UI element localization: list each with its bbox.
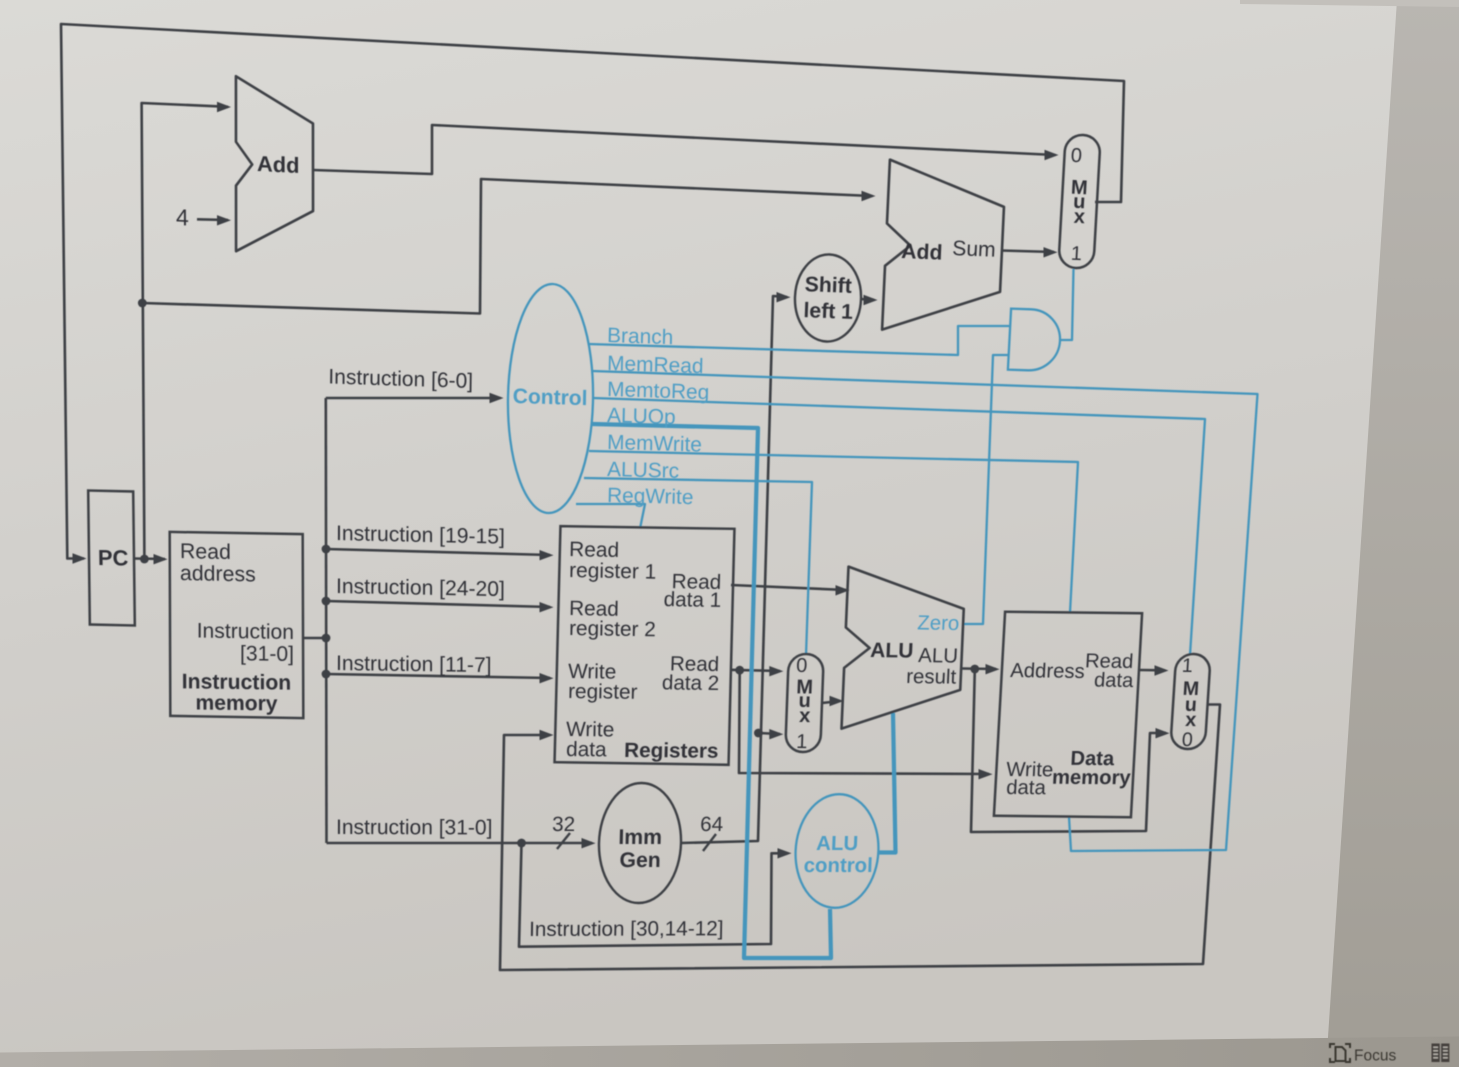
- oval Shift left 1: [793, 253, 862, 342]
- arrowhead into ALU control: [778, 848, 792, 858]
- svg-text:data 1: data 1: [663, 588, 721, 612]
- arrowhead into write data of registers: [540, 730, 554, 740]
- label instruction 31-0 port: [197, 619, 294, 644]
- wire MemtoReg signal: [593, 398, 1205, 655]
- label shift left 1: [804, 273, 852, 298]
- arrowhead into ImmGen: [582, 838, 596, 848]
- svg-text:4: 4: [176, 204, 189, 231]
- label instruction 24-20: [336, 575, 505, 601]
- arrowhead into shift left 1: [777, 292, 791, 302]
- arrowhead into mux3 input0: [1156, 728, 1170, 738]
- wire MemRead signal: [592, 371, 1258, 851]
- svg-text:ALUSrc: ALUSrc: [607, 458, 679, 483]
- label read register 2: [569, 597, 619, 621]
- oval ALU control: [793, 794, 880, 908]
- svg-text:Focus: Focus: [1354, 1048, 1396, 1065]
- arrowhead into ALU input1: [836, 585, 850, 595]
- wire ALUSrc signal: [584, 478, 812, 655]
- arrowhead into Add input1: [217, 102, 231, 112]
- label MemtoReg: [607, 378, 710, 404]
- label Imm Gen: [618, 826, 662, 849]
- label write data reg: [566, 718, 615, 741]
- arrowhead into Control: [490, 393, 504, 403]
- label MemRead: [607, 352, 704, 378]
- label Branch: [607, 324, 674, 349]
- svg-text:32: 32: [552, 813, 575, 836]
- node imm to mux junction: [754, 729, 763, 738]
- node PC branch junction: [138, 299, 147, 308]
- svg-text:Gen: Gen: [619, 849, 661, 872]
- adder Add (PC+4): [236, 76, 313, 255]
- svg-text:MemWrite: MemWrite: [607, 431, 702, 457]
- register PC: [88, 491, 135, 626]
- mux3 memtoreg pill: [1170, 654, 1211, 749]
- arrowhead into mux2 input0: [769, 666, 783, 676]
- svg-text:Zero: Zero: [917, 612, 960, 635]
- wire Branch signal: [588, 326, 1009, 355]
- wire AND gate out to mux4 select: [1061, 269, 1074, 340]
- svg-text:RegWrite: RegWrite: [607, 484, 694, 509]
- arrowhead into Add input2: [217, 215, 231, 225]
- svg-text:register 2: register 2: [569, 617, 656, 641]
- arrowhead into read address: [154, 554, 168, 564]
- node tap 19-15: [322, 545, 331, 554]
- svg-text:Instruction [6-0]: Instruction [6-0]: [328, 365, 473, 393]
- svg-text:Address: Address: [1010, 660, 1086, 683]
- screen top edge right: [1240, 0, 1459, 7]
- wire imm to mux2 in1: [758, 733, 780, 734]
- svg-text:memory: memory: [1051, 767, 1132, 789]
- arrowhead into mux4 input1: [1044, 247, 1058, 257]
- svg-text:left 1: left 1: [803, 299, 854, 324]
- oval Control: [506, 283, 595, 515]
- label instruction 30 14-12: [529, 917, 724, 941]
- label 32: [552, 813, 575, 836]
- svg-text:x: x: [799, 705, 811, 727]
- wire instruction 30,14-12: [519, 843, 788, 947]
- wire instruction 6-0 to Control: [326, 397, 500, 400]
- svg-text:Instruction [24-20]: Instruction [24-20]: [336, 575, 505, 601]
- label ALU: [870, 639, 914, 663]
- wire ALU result to data memory: [963, 667, 997, 670]
- label Registers: [624, 739, 719, 763]
- label 64: [700, 813, 724, 836]
- svg-text:1: 1: [1070, 243, 1082, 265]
- wire PC to AddSum: [142, 179, 872, 314]
- wire ALUOp signal: [592, 424, 831, 958]
- wire mux3 out writeback loop: [500, 705, 1220, 971]
- label instruction 31-0: [336, 816, 493, 839]
- status bar: [0, 1037, 1459, 1067]
- label read data 2: [670, 652, 720, 676]
- svg-text:MemRead: MemRead: [607, 352, 704, 378]
- label read data mem: [1084, 650, 1134, 673]
- arrowhead into mux4 input0: [1045, 150, 1059, 160]
- wire Add out to mux4 in0: [313, 125, 1055, 174]
- wire instruction 24-20: [326, 601, 550, 607]
- svg-text:MemtoReg: MemtoReg: [607, 378, 710, 404]
- block data memory: [994, 612, 1142, 817]
- arrowhead into write data of data memory: [979, 769, 993, 779]
- wire ALU control out to ALU: [878, 713, 896, 853]
- svg-text:1: 1: [1181, 655, 1193, 677]
- mux4 pcsrc pill: [1058, 134, 1100, 269]
- wire RegWrite signal: [576, 504, 645, 529]
- label Instruction 6-0: [328, 365, 473, 393]
- wire read data 2 down to data memory: [739, 670, 989, 774]
- label RegWrite: [607, 484, 694, 509]
- svg-text:address: address: [180, 561, 256, 586]
- label 4: [176, 204, 189, 231]
- svg-text:data: data: [566, 738, 607, 761]
- label read data 1: [671, 570, 721, 594]
- node read data 2 junction: [735, 666, 744, 675]
- svg-text:memory: memory: [195, 692, 277, 716]
- node ALU result junction: [970, 665, 979, 674]
- adder Add Sum (branch): [882, 160, 1006, 335]
- label Add Sum: [901, 240, 943, 265]
- wire read data to mux3: [1140, 669, 1165, 672]
- label Add: [257, 151, 300, 178]
- label read address: [180, 539, 231, 564]
- focus icon: [1330, 1044, 1350, 1062]
- wire instruction 11-7: [326, 674, 550, 678]
- svg-text:Instruction [31-0]: Instruction [31-0]: [336, 816, 493, 839]
- label Address: [1010, 660, 1086, 683]
- oval Imm Gen: [598, 783, 683, 903]
- mux2 alusrc pill: [785, 654, 824, 752]
- svg-text:[31-0]: [31-0]: [240, 642, 294, 666]
- label instruction memory: [182, 670, 292, 694]
- svg-text:ALU: ALU: [816, 833, 859, 855]
- arrowhead into address: [986, 664, 1000, 674]
- label data memory: [1070, 748, 1116, 770]
- wire read data 2: [730, 670, 780, 671]
- svg-text:PC: PC: [98, 545, 129, 571]
- svg-text:Instruction [11-7]: Instruction [11-7]: [336, 652, 492, 677]
- svg-text:Add: Add: [901, 240, 943, 265]
- node imm branch junction: [517, 839, 526, 848]
- label instruction 19-15: [336, 522, 505, 549]
- svg-text:Instruction: Instruction: [197, 619, 294, 644]
- alu main ALU: [842, 567, 966, 731]
- svg-text:ALU: ALU: [918, 645, 959, 668]
- node PC-out junction: [140, 555, 149, 564]
- arrowhead into ALU input2: [830, 696, 844, 706]
- wire instruction 19-15: [326, 549, 550, 555]
- arrowhead into mux3 input1: [1155, 665, 1169, 675]
- wire shift left 1 out to AddSum: [861, 298, 875, 301]
- svg-text:x: x: [1073, 206, 1085, 228]
- wire ImmGen out up to shift left: [681, 296, 787, 843]
- wire read data 1 to ALU: [731, 585, 846, 590]
- label ALUSrc: [607, 458, 679, 483]
- wire mux2 out to ALU: [822, 701, 840, 703]
- svg-text:0: 0: [1181, 729, 1193, 751]
- label read register 1: [569, 538, 619, 562]
- svg-text:ALU: ALU: [870, 639, 914, 663]
- wire ALU result bypass to mux3: [971, 669, 1166, 832]
- label mux3: [1181, 655, 1193, 677]
- svg-text:64: 64: [700, 813, 724, 836]
- svg-text:result: result: [906, 666, 957, 689]
- wire instruction memory out: [303, 637, 326, 640]
- block instruction memory: [170, 532, 304, 718]
- svg-text:register 1: register 1: [569, 559, 657, 584]
- arrowhead into AddSum input1: [862, 191, 876, 201]
- slash 32: [557, 833, 570, 849]
- svg-text:ALUOp: ALUOp: [607, 404, 676, 429]
- wire Zero to AND gate: [963, 355, 1010, 624]
- label write register: [568, 660, 617, 684]
- arrowhead into write register: [540, 673, 554, 683]
- arrowhead into read register 1: [540, 550, 554, 560]
- svg-text:Shift: Shift: [804, 273, 852, 298]
- wire PC up to Add: [142, 103, 228, 559]
- block registers: [555, 526, 735, 765]
- svg-text:register: register: [568, 680, 638, 704]
- svg-text:Instruction [30,14-12]: Instruction [30,14-12]: [529, 917, 724, 941]
- label PC: [98, 545, 129, 571]
- wire 4 to Add: [197, 218, 228, 221]
- arrowhead into read register 2: [540, 602, 554, 612]
- label ALUOp: [607, 404, 676, 429]
- svg-text:control: control: [803, 855, 873, 877]
- label mux2: [796, 655, 808, 677]
- svg-text:0: 0: [1070, 145, 1082, 167]
- svg-text:data: data: [1006, 777, 1047, 799]
- label Control: [513, 385, 588, 410]
- node bus entry junction: [322, 634, 331, 643]
- label MemWrite: [607, 431, 702, 457]
- label Zero: [917, 612, 960, 635]
- svg-text:0: 0: [796, 655, 808, 677]
- slash 64: [703, 834, 716, 851]
- screen edge band right: [1326, 0, 1459, 1067]
- label ALU result: [918, 645, 959, 668]
- wire MemWrite signal: [589, 451, 1078, 613]
- node tap 24-20: [322, 597, 331, 606]
- wire instruction bus: [324, 398, 327, 843]
- svg-text:data 2: data 2: [662, 671, 720, 695]
- svg-text:Control: Control: [513, 385, 588, 410]
- svg-text:Instruction [19-15]: Instruction [19-15]: [336, 522, 505, 549]
- label instruction 11-7: [336, 652, 492, 677]
- wire mux4out to PC loop: [61, 24, 1124, 559]
- svg-text:Add: Add: [257, 151, 300, 178]
- book icon: [1432, 1044, 1450, 1063]
- svg-text:Registers: Registers: [624, 739, 719, 763]
- label mux4: [1070, 145, 1082, 167]
- wire PC out to instruction memory: [134, 557, 165, 560]
- wire AddSum out to mux4 in1: [1001, 251, 1054, 253]
- label ALU control: [816, 833, 859, 855]
- svg-text:Imm: Imm: [618, 826, 662, 849]
- arrowhead into PC: [73, 553, 87, 563]
- svg-text:Sum: Sum: [952, 237, 996, 262]
- and gate branch: [1008, 309, 1062, 372]
- svg-text:data: data: [1093, 670, 1134, 692]
- node tap 11-7: [322, 670, 331, 679]
- wire instruction 31-0 to ImmGen: [327, 842, 593, 845]
- svg-text:Branch: Branch: [607, 324, 674, 349]
- arrowhead into AddSum input2: [864, 295, 878, 305]
- label write data mem: [1006, 759, 1054, 781]
- svg-text:x: x: [1185, 709, 1197, 731]
- arrowhead into mux2 input1: [769, 729, 783, 739]
- svg-text:1: 1: [796, 731, 808, 753]
